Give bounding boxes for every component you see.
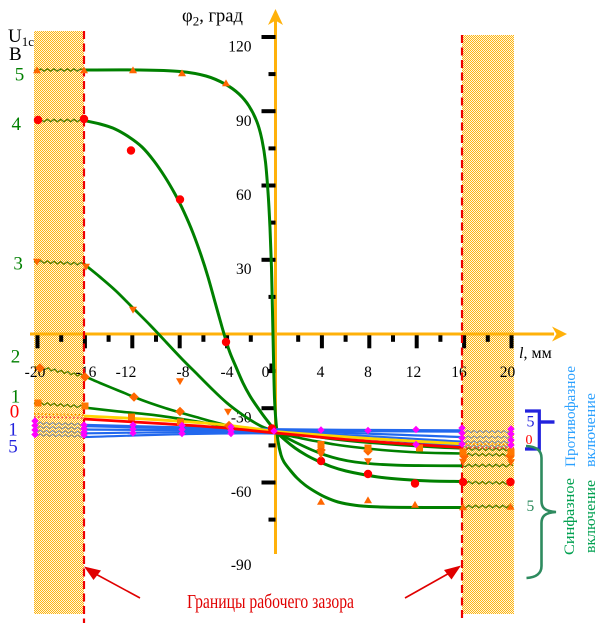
yellow 0-line <box>84 416 462 444</box>
blue line 3 in-band right <box>462 441 513 444</box>
curve U5 in-band right <box>462 505 513 508</box>
blue line 1 in-band left <box>34 422 84 425</box>
curve U2 in-band right <box>462 453 513 456</box>
blue line 1 in-band right <box>462 430 513 433</box>
teal curly brace <box>526 446 556 578</box>
svg-text:Синфазное: Синфазное <box>562 478 578 555</box>
hatched band right (out of working gap) <box>462 35 514 614</box>
svg-text:60: 60 <box>236 187 252 204</box>
svg-text:4: 4 <box>317 364 325 381</box>
blue line 4 in-band right <box>462 445 513 448</box>
svg-text:Границы рабочего зазора: Границы рабочего зазора <box>187 591 354 613</box>
svg-text:120: 120 <box>228 39 252 56</box>
small tick square at x=0 label row <box>270 364 275 372</box>
curve U2 in-band left <box>35 367 84 377</box>
blue line 4 in-band left <box>34 434 84 437</box>
svg-text:l, мм: l, мм <box>519 345 552 362</box>
markers: curve U2 diamonds <box>35 363 45 373</box>
svg-text:4: 4 <box>12 114 22 135</box>
markers: curve U4 circles <box>34 116 42 124</box>
x-axis line <box>30 333 554 336</box>
svg-text:5: 5 <box>527 498 535 515</box>
markers: curve U1 squares <box>35 400 42 407</box>
svg-text:3: 3 <box>13 254 23 275</box>
svg-text:включение: включение <box>583 393 599 467</box>
red arrow right <box>405 566 461 599</box>
curve U1c=3V <box>84 264 462 466</box>
svg-text:-60: -60 <box>231 484 252 501</box>
svg-text:5: 5 <box>527 414 535 431</box>
curve U1c=2V <box>84 376 462 454</box>
curve U1c=1V <box>84 408 462 449</box>
red 0-line dotted left band <box>34 417 84 418</box>
svg-text:16: 16 <box>451 364 467 381</box>
curve U1c=4V <box>84 121 462 482</box>
markers: curve U5 triangles <box>33 66 41 73</box>
svg-text:5: 5 <box>15 65 24 86</box>
svg-text:2: 2 <box>11 347 20 368</box>
curve U1 in-band right <box>462 448 513 451</box>
hatched band left (out of working gap) <box>34 31 84 614</box>
svg-text:0: 0 <box>262 364 270 381</box>
blue line 1 (protivofaznoe) <box>84 430 462 438</box>
red 0-line dotted right band <box>462 447 514 450</box>
curve U3 in-band left <box>34 261 84 265</box>
svg-text:5: 5 <box>8 437 18 458</box>
curve U3 in-band right <box>462 464 513 467</box>
svg-text:Противофазное: Противофазное <box>563 366 579 467</box>
blue line 2 in-band left <box>34 426 84 429</box>
blue line 4 (protivofaznoe) <box>84 426 462 432</box>
svg-text:-12: -12 <box>116 364 137 381</box>
markers: blue lines magenta diamonds <box>31 417 38 424</box>
curve U1c=5V (sinfaznoe) <box>84 70 462 508</box>
svg-text:12: 12 <box>406 364 422 381</box>
blue line 2 (protivofaznoe) <box>84 432 462 442</box>
red arrow left <box>84 567 140 599</box>
orange 0-line dotted left band <box>34 414 84 415</box>
y-axis arrowhead <box>268 9 283 25</box>
blue line 3 in-band left <box>34 430 84 433</box>
curve U5 in-band left <box>34 69 84 71</box>
dashed red boundary line left <box>83 31 85 623</box>
svg-text:90: 90 <box>236 113 252 130</box>
svg-text:В: В <box>9 44 22 65</box>
y-axis tick marks <box>269 295 276 299</box>
curve U4 in-band left <box>34 119 84 122</box>
svg-text:30: 30 <box>236 261 252 278</box>
blue line 3 (protivofaznoe) <box>84 433 462 446</box>
svg-text:φ2, град: φ2, град <box>182 7 243 29</box>
dashed red boundary line right <box>461 35 463 620</box>
svg-text:-90: -90 <box>231 557 252 574</box>
x-axis arrowhead <box>552 327 567 342</box>
svg-text:-4: -4 <box>221 364 234 381</box>
orange 0-line dotted right band <box>462 443 514 446</box>
curve U4 in-band right <box>462 481 513 484</box>
y-axis line <box>274 14 277 554</box>
svg-text:8: 8 <box>364 364 372 381</box>
red 0-line <box>84 419 462 448</box>
markers: curve U3 down-triangles <box>33 259 41 266</box>
blue square bracket with right arm <box>525 411 539 449</box>
blue line 2 in-band right <box>462 436 513 439</box>
svg-text:включение: включение <box>583 480 599 553</box>
x-axis tick marks <box>36 335 40 348</box>
curve U1 in-band left <box>34 402 84 407</box>
svg-text:20: 20 <box>500 364 516 381</box>
